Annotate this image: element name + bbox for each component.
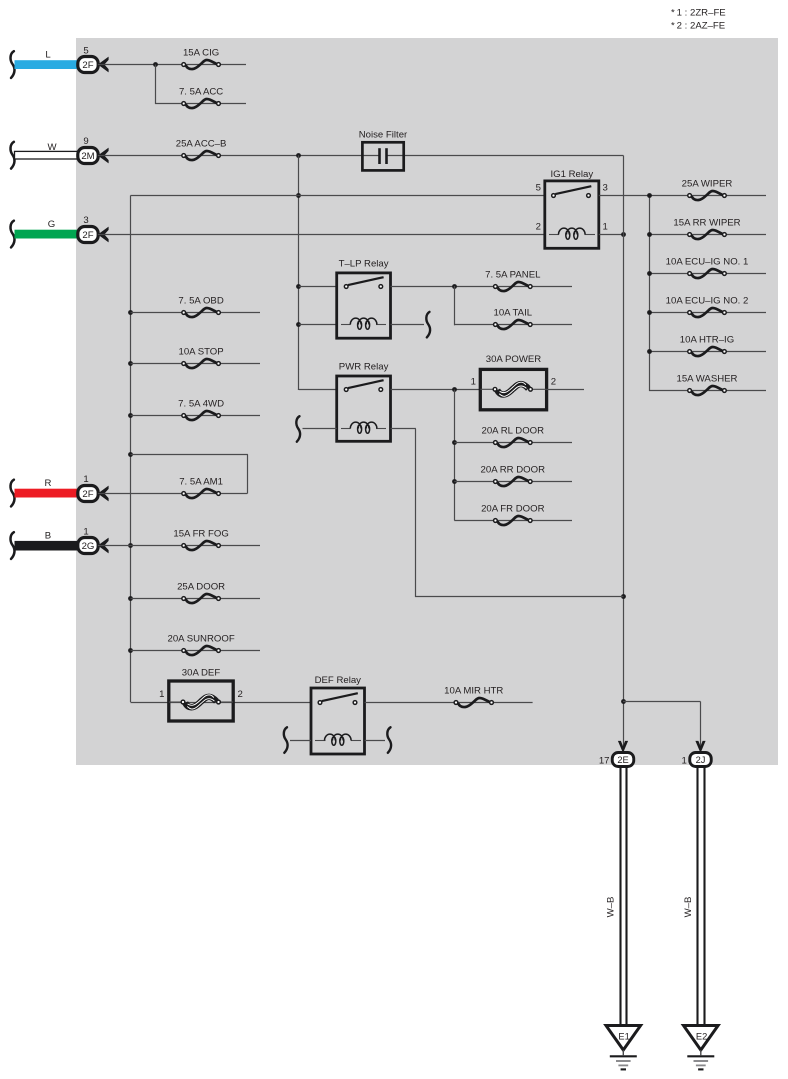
svg-text:Noise Filter: Noise Filter	[359, 130, 408, 141]
wire break squiggle (PWR coil left)	[296, 416, 300, 442]
wire: mid bus corner to PWR switch	[299, 389, 337, 391]
junction node right bus row 1	[647, 193, 652, 198]
junction node door bus / 20A RL DOOR	[452, 440, 457, 445]
arrow into connector 2E	[618, 741, 628, 753]
svg-text:E2: E2	[696, 1032, 707, 1042]
wire: DEF coil right lead	[365, 740, 386, 742]
svg-text:L: L	[45, 50, 51, 61]
wire: SUNROOF row	[131, 650, 261, 652]
relay DEF: coil	[315, 734, 361, 745]
wire: 2M pin9 ACC-B row to noise filter	[98, 155, 380, 157]
svg-text:5: 5	[536, 182, 541, 193]
svg-text:2J: 2J	[696, 755, 706, 765]
wire: T-LP switch out / PANEL row	[391, 286, 573, 288]
wire B (black) from power source	[15, 531, 79, 551]
wire: 10A HTR-IG row	[649, 351, 766, 353]
svg-text:W–B: W–B	[683, 897, 694, 918]
junction node mid bus / T-LP coil row	[296, 322, 301, 327]
wire break squiggle (B feed)	[11, 532, 15, 559]
svg-text:2F: 2F	[82, 489, 93, 500]
svg-text:7. 5A 4WD: 7. 5A 4WD	[178, 398, 224, 409]
svg-text:E1: E1	[618, 1032, 629, 1042]
junction node right bus row 5	[647, 349, 652, 354]
ground E2	[684, 1026, 719, 1070]
fusible link 30A POWER	[471, 354, 556, 410]
relay PWR: box	[337, 361, 391, 441]
svg-text:7. 5A PANEL: 7. 5A PANEL	[485, 269, 541, 280]
wire break squiggle (W feed)	[11, 142, 15, 169]
svg-text:20A RR DOOR: 20A RR DOOR	[481, 464, 546, 475]
fuse 25A DOOR	[177, 581, 225, 603]
svg-text:1: 1	[603, 221, 608, 232]
svg-text:7. 5A OBD: 7. 5A OBD	[178, 295, 223, 306]
junction node CIG/ACC branch	[153, 62, 158, 67]
fuse 20A SUNROOF	[168, 633, 235, 655]
svg-text:2F: 2F	[82, 230, 93, 241]
svg-text:15A WASHER: 15A WASHER	[677, 373, 738, 384]
relay DEF: box	[311, 675, 365, 754]
wire break squiggle (DEF coil right)	[387, 727, 391, 753]
ground E1	[606, 1026, 641, 1070]
connector 2F pin 3 (G)	[78, 215, 98, 243]
junction node mid bus / row195	[296, 193, 301, 198]
arrow into connector 2F pin3	[98, 227, 109, 243]
svg-text:20A SUNROOF: 20A SUNROOF	[168, 633, 235, 644]
relay IG1: switch contacts pins 5-3	[555, 186, 591, 194]
wire: 15A RR WIPER row	[649, 234, 766, 236]
junction node left bus / SUNROOF row	[128, 648, 133, 653]
relay PWR: switch contacts	[348, 380, 384, 388]
svg-text:T–LP Relay: T–LP Relay	[339, 258, 389, 269]
fuse 15A WASHER	[677, 373, 738, 395]
junction node left bus / FR FOG row	[128, 543, 133, 548]
wire: IG1 pin1 to ground bus	[599, 234, 623, 236]
arrow into connector 2F pin5	[98, 57, 109, 73]
junction node door bus / 20A RR DOOR	[452, 479, 457, 484]
connector 2J pin 1	[681, 753, 711, 767]
svg-text:1: 1	[471, 377, 476, 388]
junction node right bus row 2	[647, 232, 652, 237]
fusible link 30A DEF	[159, 667, 243, 721]
relay T-LP: coil	[341, 318, 386, 329]
svg-text:2E: 2E	[617, 755, 628, 765]
wire: ACC fuse row	[155, 103, 246, 105]
svg-text:DEF Relay: DEF Relay	[315, 675, 362, 686]
svg-text:W: W	[47, 142, 57, 153]
wire: 15A WASHER row	[649, 390, 766, 392]
connector 2G pin 1 (B)	[78, 526, 98, 553]
relay T-LP: switch contacts	[348, 277, 384, 285]
svg-text:1: 1	[681, 756, 686, 767]
connector 2F pin 1 (R)	[78, 474, 98, 502]
svg-text:5: 5	[83, 45, 88, 56]
junction node left bus / 10A STOP row	[128, 361, 133, 366]
svg-text:10A ECU–IG NO. 2: 10A ECU–IG NO. 2	[666, 295, 749, 306]
svg-text:25A DOOR: 25A DOOR	[177, 581, 225, 592]
wire: branch down to ACC fuse row	[155, 65, 157, 105]
wire: DEF coil left lead	[290, 740, 311, 742]
wire: FR FOG row	[98, 545, 260, 547]
relay IG1: coil pins 2-1	[549, 228, 595, 239]
wire: T-LP coil out to squiggle	[391, 324, 425, 326]
fuse 20A RL DOOR	[482, 425, 545, 447]
wire: DEF switch out to MIR HTR	[365, 702, 533, 704]
junction node PWR out / door bus	[452, 387, 457, 392]
svg-text:25A ACC–B: 25A ACC–B	[176, 138, 227, 149]
arrow into connector 2J	[695, 741, 705, 753]
junction node ground line / PWR relay coil return	[621, 594, 626, 599]
wire: 2F pin5 to CIG fuse row	[98, 64, 246, 66]
wire: ground line from noise filter down to 2E	[623, 156, 625, 753]
svg-text:PWR Relay: PWR Relay	[339, 361, 389, 372]
svg-text:15A RR WIPER: 15A RR WIPER	[673, 217, 740, 228]
noise filter U: box with capacitor	[359, 130, 408, 171]
junction node IG1 pin1 / ground line	[621, 232, 626, 237]
junction node right bus row 4	[647, 310, 652, 315]
svg-text:25A WIPER: 25A WIPER	[682, 178, 733, 189]
arrow into connector 2F pin1	[98, 486, 109, 502]
relay PWR: coil	[341, 422, 386, 433]
relay DEF: switch contacts	[322, 693, 358, 701]
svg-text:2F: 2F	[82, 60, 93, 71]
svg-text:3: 3	[83, 215, 88, 226]
arrow into connector 2M pin9	[98, 148, 109, 164]
wire: 10A ECU-IG NO. 1 row	[649, 273, 766, 275]
svg-text:17: 17	[599, 756, 610, 767]
junction node left bus / 7. 5A 4WD row	[128, 413, 133, 418]
fuse 10A ECU-IG NO. 1	[666, 256, 749, 278]
wire: noise filter to ground corner	[386, 155, 623, 157]
svg-text:10A STOP: 10A STOP	[179, 346, 224, 357]
wire: PWR coil left lead	[303, 428, 337, 430]
wire: T-LP coil feed	[299, 324, 337, 326]
wire W-B to E2 (double line)	[683, 767, 705, 1026]
junction node right bus row 3	[647, 271, 652, 276]
arrow into connector 2G pin1	[98, 538, 109, 554]
fuse 10A STOP	[179, 346, 224, 368]
wire W (white) from power source	[15, 142, 79, 159]
junction node left bus / 7. 5A OBD row	[128, 310, 133, 315]
wire break squiggle (L feed)	[11, 51, 15, 78]
junction node mid bus / T-LP switch row	[296, 284, 301, 289]
relay IG1 pin labels	[536, 182, 608, 232]
wire: IG1 pin3 to right fuse bus / 25A WIPER row	[599, 195, 766, 197]
wire G (green) from power source	[15, 219, 79, 238]
fuse 7.5A AM1	[179, 476, 223, 498]
fuse 10A MIR HTR	[444, 685, 503, 707]
wire: 30A POWER output	[547, 389, 584, 391]
wire: 10A STOP row	[131, 363, 261, 365]
connector 2F pin 5 (L)	[78, 45, 98, 72]
fuse 10A ECU-IG NO. 2	[666, 295, 749, 317]
svg-text:10A HTR–IG: 10A HTR–IG	[680, 334, 734, 345]
fuse 7. 5A OBD	[178, 295, 223, 317]
fuse 7. 5A 4WD	[178, 398, 224, 420]
wire break squiggle (G feed)	[11, 221, 15, 248]
wire break squiggle (T-LP coil out)	[426, 312, 430, 338]
wire: AM1 branch jog	[131, 454, 248, 456]
svg-text:1: 1	[83, 526, 88, 537]
fuse 7.5A ACC	[179, 86, 223, 108]
wire: DOOR row	[131, 598, 261, 600]
fuse 25A WIPER	[682, 178, 733, 200]
junction node left bus / AM1 branch	[128, 452, 133, 457]
svg-text:20A FR DOOR: 20A FR DOOR	[481, 503, 545, 514]
wire: PWR coil return to ground line	[391, 428, 416, 430]
fuse 7.5A PANEL	[485, 269, 541, 291]
svg-text:2: 2	[551, 377, 556, 388]
wire R (red) from power source	[15, 478, 79, 497]
wire W-B to E1 (double line)	[605, 767, 626, 1026]
svg-text:30A POWER: 30A POWER	[486, 354, 542, 365]
junction node ACC-B / mid bus	[296, 153, 301, 158]
junction node PANEL/TAIL branch	[452, 284, 457, 289]
wire: DEF feed row to DEF relay	[131, 702, 312, 704]
wire: PWR switch out row	[391, 389, 481, 391]
wire break squiggle (DEF coil left)	[284, 727, 288, 753]
svg-text:* 2 : 2AZ–FE: * 2 : 2AZ–FE	[671, 21, 725, 32]
wire: branch to connector 2J	[623, 701, 701, 703]
svg-text:3: 3	[603, 182, 608, 193]
svg-text:10A TAIL: 10A TAIL	[494, 307, 533, 318]
wire: row to IG1 relay pin5	[131, 195, 545, 197]
fuse 25A ACC-B	[176, 138, 227, 160]
wire: 20A RL DOOR row	[454, 442, 572, 444]
wire: TAIL branch	[454, 286, 456, 325]
svg-text:20A RL DOOR: 20A RL DOOR	[482, 425, 545, 436]
svg-text:B: B	[45, 531, 51, 542]
svg-text:R: R	[45, 478, 52, 489]
svg-text:10A MIR HTR: 10A MIR HTR	[444, 685, 503, 696]
wire: 7. 5A OBD row	[131, 312, 261, 314]
svg-text:G: G	[48, 219, 55, 230]
wire: AM1 row to connector 2F pin1	[98, 493, 248, 495]
svg-text:IG1 Relay: IG1 Relay	[550, 169, 593, 180]
svg-text:10A ECU–IG NO. 1: 10A ECU–IG NO. 1	[666, 256, 749, 267]
wire: T-LP switch feed	[299, 286, 337, 288]
svg-text:7. 5A AM1: 7. 5A AM1	[179, 476, 223, 487]
svg-text:2: 2	[238, 689, 243, 700]
svg-text:2M: 2M	[81, 151, 94, 162]
wire: 7. 5A 4WD row	[131, 415, 261, 417]
wire: 20A RR DOOR row	[454, 481, 572, 483]
connector 2E pin 17	[599, 753, 634, 767]
fuse 15A FR FOG	[173, 528, 228, 550]
svg-text:2: 2	[536, 221, 541, 232]
relay T-LP: box	[337, 258, 391, 338]
svg-text:1: 1	[159, 689, 164, 700]
fuse 15A CIG	[182, 47, 221, 69]
relay IG1: box	[545, 169, 599, 248]
svg-text:15A FR FOG: 15A FR FOG	[173, 528, 228, 539]
wire: mid distribution bus	[298, 155, 300, 390]
fuse 10A TAIL	[494, 307, 533, 329]
svg-text:30A DEF: 30A DEF	[182, 667, 221, 678]
svg-text:2G: 2G	[82, 541, 95, 552]
fuse 20A RR DOOR	[481, 464, 546, 486]
svg-text:* 1 : 2ZR–FE: * 1 : 2ZR–FE	[671, 8, 726, 19]
wire: 10A ECU-IG NO. 2 row	[649, 312, 766, 314]
wire break squiggle (R feed)	[11, 480, 15, 507]
junction node ground line / 2J branch	[621, 699, 626, 704]
fuse 15A RR WIPER	[673, 217, 740, 239]
svg-text:W–B: W–B	[605, 897, 616, 918]
background panel	[76, 38, 778, 765]
fuse 20A FR DOOR	[481, 503, 545, 525]
wire: door fuse bus	[454, 390, 456, 521]
svg-text:15A CIG: 15A CIG	[183, 47, 219, 58]
note: engine applicability	[671, 8, 726, 32]
wire: left fuse bus	[130, 196, 132, 703]
svg-text:7. 5A ACC: 7. 5A ACC	[179, 86, 223, 97]
connector 2M pin 9 (W)	[78, 136, 98, 163]
fuse 10A HTR-IG	[680, 334, 734, 356]
svg-text:9: 9	[83, 136, 88, 147]
svg-text:1: 1	[83, 474, 88, 485]
wire: 20A FR DOOR row	[454, 520, 572, 522]
wire L (blue) from power source	[15, 50, 79, 69]
wire: right fuse bank bus	[649, 196, 651, 391]
junction node left bus / DOOR row	[128, 596, 133, 601]
wire: G row to IG1 relay pin2	[98, 234, 545, 236]
